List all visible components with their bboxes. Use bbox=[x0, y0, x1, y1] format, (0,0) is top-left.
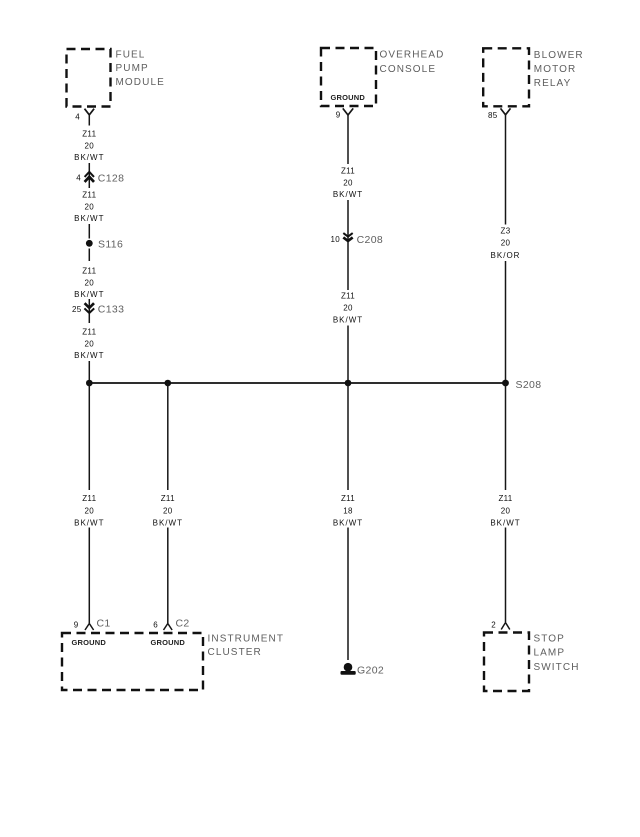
svg-text:10: 10 bbox=[331, 235, 341, 244]
svg-text:20: 20 bbox=[85, 279, 95, 288]
svg-text:20: 20 bbox=[85, 203, 95, 212]
svg-text:BK/WT: BK/WT bbox=[74, 351, 104, 360]
svg-text:C1: C1 bbox=[97, 618, 111, 630]
svg-text:20: 20 bbox=[85, 142, 95, 151]
svg-text:G202: G202 bbox=[357, 665, 384, 677]
svg-text:Z11: Z11 bbox=[341, 494, 355, 503]
svg-text:BK/WT: BK/WT bbox=[490, 518, 520, 527]
svg-text:Z11: Z11 bbox=[82, 267, 96, 276]
svg-text:S116: S116 bbox=[98, 239, 123, 251]
svg-text:4: 4 bbox=[76, 174, 81, 183]
svg-text:BLOWER: BLOWER bbox=[534, 50, 584, 61]
svg-text:20: 20 bbox=[501, 239, 511, 248]
svg-text:PUMP: PUMP bbox=[116, 63, 149, 74]
svg-text:Z11: Z11 bbox=[161, 494, 175, 503]
svg-text:BK/WT: BK/WT bbox=[74, 153, 104, 162]
svg-text:20: 20 bbox=[163, 507, 173, 516]
svg-text:Z11: Z11 bbox=[82, 191, 96, 200]
svg-text:RELAY: RELAY bbox=[534, 78, 572, 89]
svg-text:20: 20 bbox=[85, 507, 95, 516]
svg-text:2: 2 bbox=[491, 621, 496, 630]
svg-text:20: 20 bbox=[85, 340, 95, 349]
svg-text:Z11: Z11 bbox=[82, 328, 96, 337]
svg-text:BK/WT: BK/WT bbox=[333, 190, 363, 199]
svg-text:SWITCH: SWITCH bbox=[534, 662, 580, 673]
svg-text:GROUND: GROUND bbox=[72, 638, 107, 647]
svg-text:85: 85 bbox=[488, 111, 498, 120]
svg-text:BK/OR: BK/OR bbox=[491, 251, 521, 260]
svg-text:Z11: Z11 bbox=[498, 494, 512, 503]
svg-text:LAMP: LAMP bbox=[534, 648, 566, 659]
svg-text:4: 4 bbox=[75, 112, 80, 121]
svg-text:INSTRUMENT: INSTRUMENT bbox=[208, 634, 285, 645]
svg-text:9: 9 bbox=[74, 620, 79, 629]
svg-text:BK/WT: BK/WT bbox=[74, 214, 104, 223]
svg-text:BK/WT: BK/WT bbox=[74, 518, 104, 527]
svg-text:9: 9 bbox=[336, 111, 341, 120]
svg-text:STOP: STOP bbox=[534, 634, 565, 645]
svg-text:CLUSTER: CLUSTER bbox=[208, 647, 262, 658]
svg-text:Z11: Z11 bbox=[341, 167, 355, 176]
svg-text:CONSOLE: CONSOLE bbox=[380, 64, 437, 75]
svg-text:Z11: Z11 bbox=[341, 292, 355, 301]
svg-text:25: 25 bbox=[72, 305, 82, 314]
svg-text:Z3: Z3 bbox=[501, 227, 511, 236]
svg-text:20: 20 bbox=[343, 304, 353, 313]
svg-text:C2: C2 bbox=[176, 618, 190, 630]
svg-text:18: 18 bbox=[343, 507, 353, 516]
svg-text:BK/WT: BK/WT bbox=[333, 518, 363, 527]
svg-text:C133: C133 bbox=[98, 304, 125, 316]
svg-text:MOTOR: MOTOR bbox=[534, 64, 577, 75]
svg-text:BK/WT: BK/WT bbox=[153, 518, 183, 527]
svg-text:BK/WT: BK/WT bbox=[333, 316, 363, 325]
svg-text:C128: C128 bbox=[98, 173, 125, 185]
svg-text:FUEL: FUEL bbox=[116, 49, 146, 60]
svg-text:6: 6 bbox=[153, 620, 158, 629]
svg-text:GROUND: GROUND bbox=[151, 638, 186, 647]
svg-text:BK/WT: BK/WT bbox=[74, 290, 104, 299]
svg-text:20: 20 bbox=[343, 179, 353, 188]
svg-text:MODULE: MODULE bbox=[116, 77, 165, 88]
svg-text:C208: C208 bbox=[357, 234, 384, 246]
svg-text:Z11: Z11 bbox=[82, 494, 96, 503]
svg-text:OVERHEAD: OVERHEAD bbox=[380, 49, 445, 60]
svg-text:GROUND: GROUND bbox=[331, 93, 366, 102]
svg-text:Z11: Z11 bbox=[82, 130, 96, 139]
svg-text:20: 20 bbox=[501, 507, 511, 516]
svg-text:S208: S208 bbox=[516, 379, 542, 391]
